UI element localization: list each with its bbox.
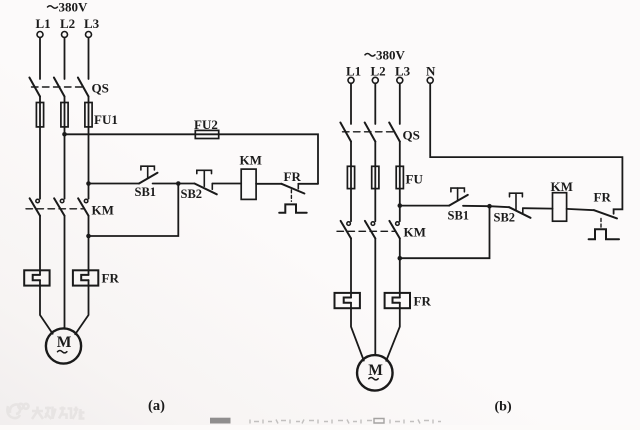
relay contact FR (NC) [282,184,319,194]
caption fragment bottom center [210,418,441,424]
terminal L3 (b) [397,77,403,83]
svg-text:(a): (a) [148,398,165,414]
svg-text:L1: L1 [346,64,361,79]
contactor KM main contact 3 [78,198,88,216]
svg-text:FR: FR [102,271,120,286]
svg-text:KM: KM [240,153,262,168]
wire fuse2 to KM (b) [374,189,376,222]
contactor KM main contact 1 [30,198,40,216]
svg-text:380V: 380V [59,0,89,14]
svg-text:L2: L2 [60,16,75,31]
svg-text:KM: KM [404,225,426,240]
contactor KM main contact 3 (b) [389,221,399,239]
FR linkage dashed [290,190,292,202]
contactor KM linkage dashed (b) [337,230,395,232]
wire control tap to SB1 (b) [400,205,449,207]
wire QS to FU pole3 (b) [399,142,401,167]
wire KM3 down to heater (b) [399,238,401,297]
wire SB2 to KM coil (b) [523,207,553,209]
switch QS pole 3 blade (b) [389,123,400,142]
FR linkage dashed (b) [600,219,602,229]
wire KM1 down to FR heater [39,216,41,275]
fuse FU1 element 3 [85,103,92,127]
wire FU2 to right rail [219,134,318,184]
svg-text:L2: L2 [371,64,386,79]
fuse FU2 [195,130,218,138]
switch QS linkage dashed [32,86,87,88]
coil KM [241,169,256,199]
contactor KM main contact 2 [54,198,64,216]
fuse FU1 element 1 [36,103,43,127]
pushbutton SB2 (stop, NC) [178,170,217,194]
svg-text:SB2: SB2 [494,211,516,225]
watermark text 大数跨境 [32,407,85,420]
motor M (a) [46,328,81,363]
wire KM coil to FR [256,183,281,185]
svg-text:N: N [426,64,436,79]
coil KM (b) [553,193,567,222]
svg-text:FR: FR [594,190,612,205]
svg-text:QS: QS [403,128,420,143]
svg-text:SB1: SB1 [135,185,157,199]
wire L1 to QS (b) [350,83,352,124]
wire QS to FU1 pole1 [39,97,41,103]
wire fuse3 to KM (b) [399,189,401,222]
wire fuse3 to KM [88,127,90,199]
node latch on L3 [86,234,91,239]
wire heater2 to motor (b) [386,303,400,361]
wire control tap to SB1 [89,183,140,185]
wire SB2 to KM coil [212,183,241,185]
node SB1/SB2/latch junction [176,181,181,186]
wire fuse1 to KM [39,127,41,199]
svg-text:SB1: SB1 [448,208,470,222]
heater FR element 1 (b) [335,293,360,308]
svg-text:380V: 380V [376,48,406,63]
svg-text:KM: KM [92,203,114,218]
wire QS to FU pole2 (b) [374,142,376,167]
wire L1 to QS [39,38,41,80]
svg-text:L3: L3 [84,16,100,31]
terminal L1 [37,32,43,38]
svg-text:FU: FU [406,172,424,187]
heater FR element 1 [24,270,49,285]
switch QS linkage dashed (b) [343,131,398,133]
pushbutton SB2 (b) [490,193,531,218]
terminal L2 (b) [372,77,378,83]
svg-text:KM: KM [551,179,573,194]
svg-text:L1: L1 [36,16,51,31]
switch QS pole 2 blade [54,78,65,97]
svg-text:QS: QS [92,81,109,96]
label ~380V (a) [48,0,89,14]
wire L2 to QS (b) [374,83,376,124]
svg-text:M: M [368,362,383,379]
wire KM1 down to heater (b) [350,238,352,297]
wire L2 node to FU2 [65,133,196,135]
switch QS pole 2 blade (b) [365,123,376,142]
terminal N [427,77,433,83]
fuse FU element 3 [396,166,403,188]
wire N rail [430,83,622,214]
switch QS pole 1 blade (b) [340,123,351,142]
wire KM3 down to FR heater [88,216,90,275]
heater FR element 2 [73,270,98,285]
svg-text:(b): (b) [495,400,512,415]
wire QS to FU1 pole3 [88,97,90,103]
node control tap on L3 (b) [398,203,403,208]
switch QS pole 1 blade [29,78,40,97]
wire heater1 to motor (b) [351,303,364,361]
svg-text:FR: FR [414,294,432,309]
wire latch loop (b) [400,206,490,258]
svg-text:FR: FR [284,169,302,184]
fuse FU1 element 2 [61,103,68,127]
svg-text:L3: L3 [395,64,411,79]
motor M (b) [357,355,393,391]
wire SB1 to node [153,183,179,185]
node on L2 feeding FU2 [62,132,67,137]
node latch on L3 (b) [398,256,403,261]
svg-text:M: M [57,334,72,351]
node SB1/SB2/latch junction (b) [487,204,492,209]
contactor KM main contact 2 (b) [365,221,375,239]
pushbutton SB1 (start, NO) [139,166,158,183]
node control tap on L3 [86,181,91,186]
tilde in motor (a) [58,351,67,353]
fuse FU element 1 [347,166,354,188]
wire KM coil to FR (b) [567,209,594,210]
heater FR element 2 (b) [385,293,410,308]
label ~380V (b) [365,48,406,63]
svg-text:FU1: FU1 [94,112,118,127]
relay contact FR (NC) (b) [594,210,617,218]
wire KM2 down to motor (b) [374,238,376,355]
wire L2 to QS [64,38,66,80]
terminal L1 (b) [348,77,354,83]
contactor KM main contact 1 (b) [341,221,351,239]
wire heater1 to motor [40,280,53,334]
FR thermal actuator symbol [279,204,307,212]
contactor KM linkage dashed [26,208,84,210]
wire SB1 to node (b) [463,205,490,207]
watermark logo bottom-left [7,404,28,418]
wire QS to FU1 pole2 [64,97,66,103]
wire latch loop [89,184,179,237]
switch QS pole 3 blade [78,78,89,97]
fuse FU element 2 [372,166,379,188]
svg-text:SB2: SB2 [181,187,203,201]
wire heater2 to motor [75,280,88,334]
terminal L3 [86,32,92,38]
FR thermal actuator symbol (b) [589,229,619,239]
pushbutton SB1 (b) [449,188,468,206]
wire QS to FU pole1 (b) [350,142,352,167]
wire KM2 down to motor [64,216,66,329]
wire L3 to QS (b) [399,83,401,124]
wire fuse1 to KM (b) [350,189,352,222]
terminal L2 [62,32,68,38]
svg-text:FU2: FU2 [194,117,218,132]
wire fuse2 to KM [64,127,66,199]
wire L3 to QS [88,38,90,80]
tilde in motor (b) [369,378,378,380]
